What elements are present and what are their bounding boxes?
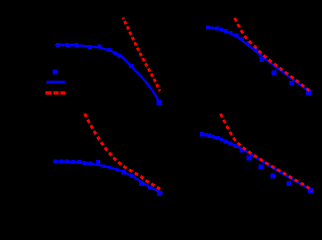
legend red dashed-line sample (45, 91, 65, 94)
top-left panel: red dashed power-law curve (123, 18, 160, 91)
bottom-right panel: blue solid fit curve (201, 134, 311, 190)
top-left panel: blue data dots (56, 43, 162, 105)
bottom-left panel: blue solid fit curve (55, 162, 162, 194)
top-right panel: blue solid fit curve (207, 27, 311, 92)
bottom-right panel: blue data dots (200, 132, 313, 193)
bottom-right panel: red dashed power-law curve (221, 114, 313, 192)
bottom-left panel: blue data dots (54, 160, 163, 196)
top-right panel: red dashed power-law curve (235, 18, 312, 93)
top-left panel: blue solid fit curve (56, 45, 160, 103)
legend data-dot marker (53, 70, 58, 75)
bottom-left panel: red dashed power-law curve (85, 114, 163, 191)
top-right panel: blue data dots (206, 25, 311, 95)
legend blue solid-line sample (46, 81, 65, 84)
